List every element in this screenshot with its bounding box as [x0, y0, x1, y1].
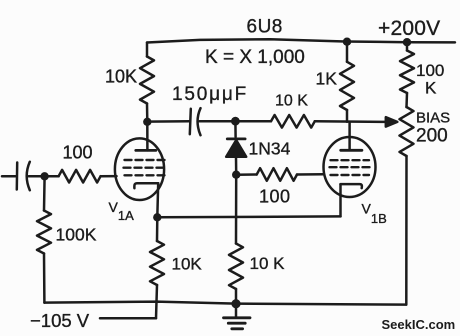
- diode 1N34 triangle: [226, 140, 246, 157]
- wire V1A plate branch upper lead: [146, 43, 149, 57]
- resistor 100K (grid return): [37, 211, 51, 254]
- node rail 100K: [403, 38, 411, 46]
- wire 10K mid to ground junction: [235, 289, 238, 304]
- grid dashes V1B row1: [331, 159, 370, 161]
- grid dashes V1A row1: [125, 159, 165, 161]
- plate bar V1B: [341, 149, 362, 152]
- wire 100K right top lead: [406, 42, 409, 50]
- resistor 100 (V1A grid stopper): [59, 170, 101, 183]
- cathode V1A with curl: [134, 183, 158, 188]
- svg-text:10K: 10K: [172, 254, 203, 273]
- wire V1A plate lead down: [146, 122, 149, 150]
- resistor 100 (V1B grid): [257, 168, 297, 181]
- wire cathode V1A down: [156, 183, 159, 217]
- wire 100K to pot: [405, 93, 408, 107]
- svg-text:K = X 1,000: K = X 1,000: [205, 47, 305, 68]
- wire 1K bottom lead: [346, 110, 349, 122]
- wire 10K to arrow: [315, 120, 387, 123]
- wire lower node down to 10K mid: [235, 175, 238, 244]
- wire junction down to 100K: [43, 176, 46, 210]
- node V1A plate: [143, 118, 151, 126]
- resistor 100K (right): [400, 51, 414, 94]
- svg-text:1N34: 1N34: [249, 139, 291, 159]
- wire grid lead V1B: [297, 173, 324, 176]
- svg-text:V1A: V1A: [109, 199, 135, 223]
- wire 1K top lead: [346, 42, 349, 62]
- node diode anode: [232, 171, 240, 179]
- wire cathode bus V1A to V1B: [157, 215, 340, 218]
- svg-text:1K: 1K: [316, 69, 338, 89]
- wire V1B plate lead up: [348, 122, 351, 150]
- grid dashes V1A row3: [125, 174, 165, 176]
- resistor 10K (V1A plate load): [140, 57, 154, 104]
- tube envelope V1A: [115, 138, 164, 200]
- wire input lead: [2, 175, 16, 178]
- grid dashes V1A row2: [124, 166, 165, 168]
- diode 1N34 cathode bar: [227, 137, 245, 140]
- node input junction: [40, 172, 48, 180]
- capacitor C 150uuF left plate: [190, 109, 191, 134]
- ground bar3: [232, 327, 243, 330]
- wire top +200V rail: [147, 39, 455, 42]
- wire pot bottom lead to bottom rail: [405, 156, 408, 305]
- plate bar V1A: [136, 149, 156, 152]
- svg-text:−105 V: −105 V: [30, 310, 90, 331]
- resistor 1K (V1B plate load): [340, 62, 354, 110]
- svg-text:150μμF: 150μμF: [172, 84, 248, 105]
- wire lower node to 100 resistor: [236, 173, 257, 176]
- node rail 1K: [343, 38, 351, 46]
- wire input cap to junction: [29, 175, 59, 178]
- ground bar2: [228, 322, 245, 325]
- node ground junction: [231, 299, 240, 308]
- node cap/diode: [231, 117, 240, 126]
- svg-text:V1B: V1B: [362, 201, 387, 227]
- wire grid lead V1A: [101, 175, 117, 178]
- svg-text:200: 200: [416, 126, 448, 147]
- grid dashes V1B row3: [331, 174, 370, 176]
- wire bottom rail: [44, 302, 406, 305]
- tube envelope V1B: [324, 137, 376, 197]
- svg-text:100K: 100K: [56, 225, 97, 245]
- ground bar1: [224, 316, 251, 319]
- wire diode to lower node: [235, 157, 238, 175]
- svg-text:100: 100: [63, 143, 93, 163]
- wire 100K to bottom rail: [43, 254, 46, 303]
- svg-text:100: 100: [416, 61, 444, 80]
- wire plate node to coupling cap: [147, 120, 190, 123]
- capacitor input curved plate: [27, 162, 30, 190]
- wire cathode junction down: [156, 217, 159, 241]
- svg-text:6U8: 6U8: [247, 17, 283, 38]
- arrowhead to BIAS pot wiper: [386, 117, 398, 126]
- svg-text:K: K: [425, 79, 437, 98]
- resistor 10K (coupling, horizontal): [271, 115, 315, 128]
- wire -105V stub: [100, 317, 156, 320]
- cathode V1B with curl: [341, 184, 362, 188]
- resistor 10K (mid, to ground): [229, 244, 243, 290]
- svg-text:BIAS: BIAS: [416, 110, 450, 127]
- svg-text:SeekIC.com: SeekIC.com: [382, 317, 456, 332]
- capacitor C 150uuF right curved plate: [198, 108, 201, 135]
- wire node bus cap node to 10K: [235, 120, 271, 123]
- capacitor input flat plate: [16, 163, 19, 190]
- wire cap to diode node: [200, 120, 236, 123]
- svg-text:100: 100: [259, 187, 291, 207]
- resistor 10K (cathode, left): [150, 241, 164, 285]
- svg-text:10 K: 10 K: [250, 254, 286, 273]
- grid dashes V1B row2: [330, 166, 370, 168]
- wire 10K bottom lead to plate node: [146, 104, 149, 123]
- wire diode node down from cap node: [234, 121, 237, 137]
- wire cathode V1B down and left: [339, 184, 342, 216]
- node cathode junction: [153, 213, 161, 221]
- svg-text:10K: 10K: [105, 67, 137, 87]
- svg-text:10 K: 10 K: [275, 93, 308, 110]
- wire 10K left bottom through rail to -105V stub: [156, 285, 157, 318]
- potentiometer BIAS 200 element: [400, 107, 414, 156]
- ground stem: [235, 304, 238, 317]
- svg-text:+200V: +200V: [378, 17, 440, 40]
